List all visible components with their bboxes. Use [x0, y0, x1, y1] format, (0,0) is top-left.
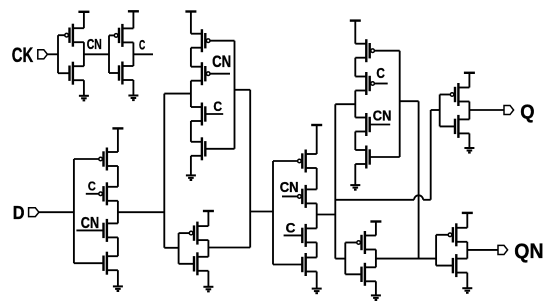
ground U5 [203, 271, 213, 292]
label C (gate of M17) [286, 220, 296, 236]
wire Q output [469, 109, 504, 111]
vdd U2 [128, 11, 139, 28]
pmos M27 (inverter U10) [436, 223, 467, 246]
port Q [504, 105, 514, 114]
label CN (gate of M7) [81, 215, 99, 232]
wire U6 source/drain chain [316, 168, 318, 258]
svg-text:CN: CN [212, 53, 231, 71]
ground U4 [186, 156, 196, 180]
wire net M [118, 94, 191, 248]
svg-text:C: C [88, 178, 96, 193]
pmos M1 (inverter U1) [58, 24, 84, 47]
label CN (gate of M21) [373, 108, 392, 125]
nmos M22 (U7 bottom) [355, 146, 399, 169]
nmos M26 (inverter U9) [440, 115, 470, 138]
wire U5 output node [207, 240, 209, 257]
port D [29, 208, 39, 217]
ground U8 [371, 281, 381, 300]
wire U9 gate rail [439, 95, 441, 127]
pmos M15 (U6 top) [273, 150, 317, 173]
ground U7 [350, 164, 360, 190]
wire U7 gate rail (net QN internal) [400, 51, 419, 259]
ground U1 [79, 80, 89, 100]
wire U4 source/drain chain [190, 48, 192, 142]
vdd U5 [203, 211, 214, 226]
pmos M25 (inverter U9) [440, 83, 470, 106]
label QN [514, 240, 543, 263]
wire U9 output node [468, 102, 470, 120]
pmos M19 (U7 top) [355, 39, 399, 62]
svg-text:CN: CN [280, 179, 299, 196]
wire CK port to inverter U1 input rail [47, 35, 58, 73]
wire U2 output node [132, 42, 134, 66]
wire U5 gate rail [178, 233, 180, 264]
nmos M28 (inverter U10) [436, 254, 467, 277]
svg-text:C: C [376, 66, 385, 82]
wire U10 gate rail [435, 235, 437, 266]
pmos M16 (U6, gate CN) [282, 185, 317, 208]
svg-text:C: C [213, 99, 222, 115]
label C (gate of M6) [88, 178, 96, 193]
wire U8 output node [375, 250, 377, 268]
pmos M6 (U3, gate C) [86, 182, 118, 205]
pmos M5 (U3 top) [74, 148, 118, 171]
ground U2 [128, 80, 138, 100]
nmos M11 (U4, gate C) [191, 103, 223, 126]
vdd U6 [311, 125, 322, 154]
pmos M10 (U4, gate CN) [191, 62, 230, 85]
wire U10 output node [466, 242, 468, 259]
pmos M9 (U4 top) [191, 29, 235, 52]
wire U3 source/drain chain [117, 166, 119, 256]
svg-text:C: C [139, 38, 145, 53]
label C (gate of M20) [376, 66, 385, 82]
nmos M21 (U7, gate CN) [355, 113, 390, 136]
nmos M12 (U4 bottom) [191, 137, 235, 160]
vdd U7 [350, 21, 361, 44]
nmos M4 (inverter U2) [109, 62, 133, 85]
wire net S [317, 104, 356, 258]
nmos M7 (U3, gate CN) [76, 219, 118, 242]
nmos M14 (inverter U5) [179, 252, 209, 275]
svg-text:CN: CN [373, 108, 392, 125]
vdd U4 [185, 12, 196, 34]
pmos M13 (inverter U5) [179, 222, 209, 245]
svg-text:CK: CK [12, 44, 34, 67]
wire U8 output to QN inverter input [376, 258, 436, 260]
label D [13, 203, 25, 224]
wire U6 gate rail [272, 161, 274, 265]
nmos M24 (inverter U8) [345, 263, 376, 286]
label net CN [87, 37, 102, 53]
svg-text:CN: CN [81, 215, 99, 232]
wire U7 source/drain chain [354, 58, 356, 150]
label CK [12, 44, 34, 67]
ground U6 [312, 272, 322, 294]
wire U4 gate rail [234, 41, 236, 149]
nmos M2 (inverter U1) [58, 62, 84, 85]
port QN [498, 245, 508, 254]
vdd U10 [462, 213, 473, 228]
wire net C (U2 out) [133, 53, 153, 55]
wire net MB [208, 90, 273, 248]
nmos M17 (U6, gate C) [284, 224, 317, 247]
ground U10 [462, 273, 472, 293]
svg-text:QN: QN [514, 240, 543, 263]
nmos M18 (U6 bottom) [273, 253, 317, 276]
svg-text:D: D [13, 203, 25, 224]
wire D input to U3 gate rail [39, 159, 74, 263]
label CN (gate of M10) [212, 53, 231, 71]
label C (gate of M11) [213, 99, 222, 115]
wire U1 output node [83, 42, 85, 66]
nmos M8 (U3 bottom) [74, 252, 118, 275]
pmos M23 (inverter U8) [345, 231, 376, 254]
wire net CN (U1 out to U2 in) [84, 35, 109, 73]
label Q [520, 102, 534, 124]
svg-text:Q: Q [520, 102, 534, 124]
wire U8 gate rail [344, 243, 346, 275]
wire net S to Q inverter (hop over QN riser) [335, 110, 439, 200]
wire QN output [467, 249, 498, 251]
pmos M20 (U7, gate C) [355, 72, 387, 95]
vdd U8 [370, 222, 381, 236]
vdd U9 [464, 73, 475, 88]
label net C [139, 38, 145, 53]
svg-text:CN: CN [87, 37, 102, 53]
vdd U1 [78, 12, 89, 28]
ground U9 [464, 133, 474, 152]
svg-text:C: C [286, 220, 296, 236]
pmos M3 (inverter U2) [109, 24, 133, 47]
label CN (gate of M16) [280, 179, 299, 196]
ground U3 [113, 270, 123, 291]
port CK [38, 50, 48, 59]
vdd U3 [112, 128, 123, 152]
